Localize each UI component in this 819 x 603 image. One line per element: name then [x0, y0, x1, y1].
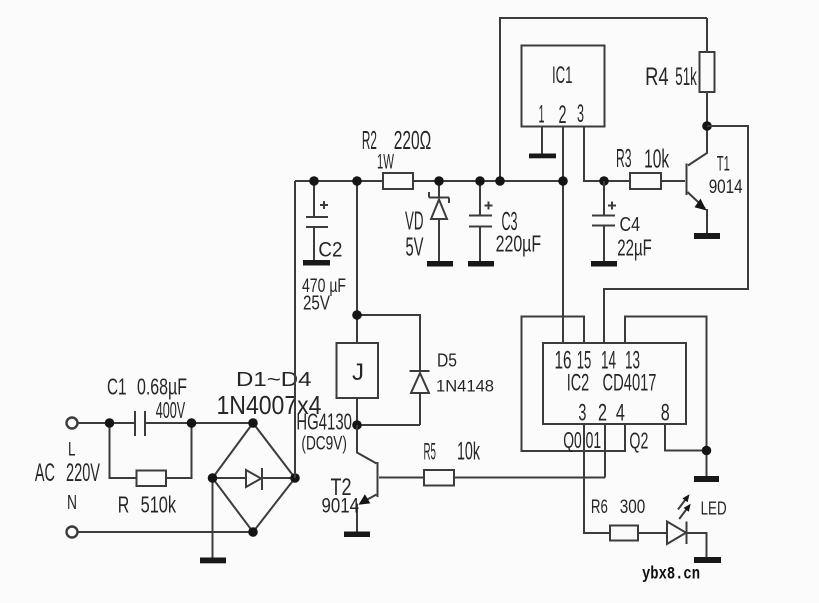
svg-text:C1: C1: [107, 374, 127, 400]
svg-text:220V: 220V: [66, 459, 100, 487]
label IC2 CD4017: [567, 370, 657, 397]
node J bottom: [352, 420, 362, 430]
ground T1: [694, 233, 720, 239]
label HG4130 DC9V: [296, 409, 352, 455]
label LED: [701, 499, 727, 519]
ground C2: [303, 260, 330, 266]
node J top: [352, 310, 362, 320]
node bridge top: [248, 418, 258, 428]
label R4 51k: [645, 63, 697, 91]
label C1 0.68uF 400V: [107, 374, 187, 424]
label VD 5V: [405, 206, 424, 262]
svg-text:ybx8.cn: ybx8.cn: [642, 565, 700, 585]
label D1~D4 1N4007x4: [217, 368, 322, 420]
ground bridge: [200, 558, 226, 564]
svg-text:R: R: [118, 492, 130, 518]
node rail J branch: [352, 176, 362, 186]
resistor R6: [610, 526, 667, 541]
wire N line: [78, 531, 253, 533]
svg-text:AC: AC: [35, 459, 55, 487]
svg-text:R3: R3: [616, 143, 632, 173]
pin 14 label: [601, 347, 616, 375]
capacitor C4: [592, 181, 616, 261]
resistor R4: [700, 18, 715, 126]
pin 3 label IC2: [578, 400, 586, 427]
node C1 left: [105, 418, 115, 428]
svg-text:51k: 51k: [675, 63, 697, 91]
svg-text:510k: 510k: [141, 492, 177, 518]
resistor R2: [383, 173, 413, 189]
label N: [67, 491, 77, 514]
svg-text:R4: R4: [645, 63, 669, 91]
ground LED: [694, 557, 721, 563]
wire IC2 pin15 loop: [522, 317, 626, 452]
wire bridge positive up: [294, 181, 296, 478]
svg-text:(DC9V): (DC9V): [301, 433, 347, 455]
wire IC2 pin3 to R6: [584, 424, 610, 533]
pin 15 label: [577, 347, 592, 375]
wire R branch loop: [110, 423, 192, 478]
label R3 10k: [616, 143, 670, 174]
svg-text:2: 2: [559, 101, 567, 129]
svg-text:1N4148: 1N4148: [436, 377, 494, 396]
label T1 9014: [709, 152, 743, 199]
svg-text:LED: LED: [701, 499, 727, 519]
svg-text:01: 01: [586, 427, 602, 453]
bridge rectifier D1~D4: [213, 423, 296, 532]
svg-text:HG4130: HG4130: [296, 409, 352, 435]
node R3 C4: [599, 176, 609, 186]
label C2 470uF 25V: [302, 239, 346, 315]
resistor R5: [379, 470, 605, 486]
wire main rail: [295, 180, 563, 182]
wire IC1 pin2 to IC2 pin16: [562, 127, 564, 344]
svg-text:T1: T1: [717, 152, 730, 176]
pin 3 label IC1: [577, 100, 584, 128]
svg-text:C4: C4: [620, 214, 641, 236]
label IC1: [552, 62, 573, 89]
svg-text:R2: R2: [362, 125, 377, 155]
node bridge left: [208, 473, 218, 483]
svg-text:D5: D5: [437, 350, 457, 371]
label T2 9014: [322, 474, 360, 518]
svg-text:3: 3: [577, 100, 584, 128]
svg-text:9014: 9014: [322, 494, 360, 518]
capacitor C3: [469, 181, 493, 261]
label C3 220uF: [496, 206, 541, 257]
svg-text:15: 15: [577, 347, 592, 375]
svg-text:4: 4: [616, 400, 625, 427]
node rail C3: [475, 176, 485, 186]
svg-text:J: J: [352, 359, 364, 386]
IC2 box CD4017: [543, 343, 686, 424]
svg-text:1W: 1W: [377, 151, 394, 174]
svg-text:0.68µF: 0.68µF: [137, 374, 187, 400]
ground C4: [591, 261, 617, 267]
node T1 collector: [702, 121, 712, 131]
svg-text:25V: 25V: [303, 292, 330, 315]
LED: [667, 494, 707, 557]
pin 2 label IC2: [598, 400, 607, 427]
node bridge bottom: [248, 527, 258, 537]
svg-text:2: 2: [598, 400, 607, 427]
node rail C2: [309, 176, 319, 186]
wire top loop: [500, 18, 707, 181]
pin 1 label IC1: [539, 101, 545, 129]
svg-text:L: L: [68, 440, 76, 461]
svg-text:R6: R6: [591, 496, 608, 518]
wire IC2 pin13 loop: [625, 317, 707, 477]
node rail top loop: [495, 176, 505, 186]
svg-text:N: N: [67, 491, 77, 514]
zener diode VD: [429, 181, 449, 261]
svg-text:400V: 400V: [156, 397, 186, 423]
svg-text:16: 16: [555, 347, 572, 375]
terminal N: [67, 527, 78, 538]
svg-text:220Ω: 220Ω: [394, 125, 432, 155]
wire L line: [78, 422, 253, 424]
svg-text:14: 14: [601, 347, 616, 375]
resistor R: [137, 471, 167, 487]
pin 16 label: [555, 347, 572, 375]
svg-text:1: 1: [539, 101, 545, 129]
node rail VD: [434, 176, 444, 186]
ground IC2 pin13: [694, 476, 719, 482]
node pin8 junction: [702, 446, 712, 456]
svg-text:D1~D4: D1~D4: [236, 368, 312, 391]
capacitor C2: [306, 181, 328, 260]
svg-text:22µF: 22µF: [617, 235, 652, 261]
watermark ybx8.cn: [642, 565, 700, 585]
node rail IC1 pin2: [558, 176, 568, 186]
capacitor C1: [135, 411, 145, 436]
label R5 10k: [424, 438, 481, 466]
transistor T1: [687, 126, 708, 233]
diode D5: [357, 315, 430, 425]
label D5 1N4148: [436, 350, 494, 396]
svg-text:R5: R5: [424, 439, 437, 466]
wire IC2 pin8 ground: [665, 424, 707, 451]
pin 13 label: [625, 347, 640, 375]
wire bridge to ground: [212, 478, 214, 558]
svg-text:10k: 10k: [457, 438, 480, 466]
svg-text:Q2: Q2: [629, 428, 648, 454]
resistor R3: [630, 173, 685, 189]
label Q0 Q1 Q2: [563, 427, 648, 454]
node bridge right: [290, 473, 300, 483]
node C1 right: [187, 418, 197, 428]
ground VD: [427, 261, 453, 267]
svg-text:13: 13: [625, 347, 640, 375]
ground C3: [468, 261, 494, 267]
label AC 220V: [35, 459, 100, 487]
svg-text:10k: 10k: [644, 144, 670, 174]
ground T2: [344, 532, 370, 538]
wire T1 collector to IC2 pin14: [604, 126, 748, 343]
wire IC1 pin3 jog: [584, 127, 604, 182]
pin 2 label IC1: [559, 101, 567, 129]
wire node to R3: [604, 180, 630, 182]
wire IC2 pin2 to R5: [604, 424, 606, 478]
pin 8 label IC2: [661, 400, 670, 427]
label R2 220 1W: [362, 125, 431, 174]
label C4 22uF: [617, 214, 652, 261]
terminal L: [67, 418, 78, 429]
wire IC1 pin1 ground: [541, 127, 543, 154]
label L: [68, 440, 76, 461]
svg-text:IC1: IC1: [552, 62, 573, 89]
IC1 regulator box: [522, 46, 605, 127]
transistor T2: [357, 425, 378, 532]
ground IC1 pin1: [529, 154, 556, 159]
label R6 300: [591, 496, 646, 518]
svg-text:9014: 9014: [709, 177, 743, 198]
svg-text:220µF: 220µF: [496, 231, 541, 257]
svg-text:Q0: Q0: [563, 427, 582, 453]
pin 4 label IC2: [616, 400, 625, 427]
svg-text:5V: 5V: [406, 232, 424, 262]
svg-text:300: 300: [620, 496, 646, 518]
label J: [352, 359, 364, 386]
relay J coil: [337, 181, 379, 425]
svg-text:8: 8: [661, 400, 670, 427]
svg-text:3: 3: [578, 400, 586, 427]
label R 510k: [118, 492, 177, 518]
svg-text:C2: C2: [318, 239, 342, 262]
